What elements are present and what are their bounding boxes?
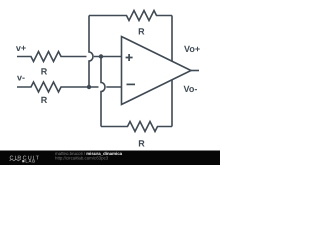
svg-text:Vo+: Vo+ (184, 44, 200, 54)
svg-text:Vo-: Vo- (184, 84, 198, 94)
svg-text:R: R (41, 95, 48, 105)
svg-text:R: R (41, 66, 48, 76)
svg-text:R: R (138, 27, 145, 37)
svg-text:http://circuitlab.com/c63pc3: http://circuitlab.com/c63pc3 (55, 155, 109, 160)
svg-text:R: R (138, 139, 145, 149)
svg-text:v+: v+ (16, 43, 26, 53)
svg-text:■LAB: ■LAB (22, 158, 36, 163)
svg-text:v-: v- (17, 73, 25, 83)
